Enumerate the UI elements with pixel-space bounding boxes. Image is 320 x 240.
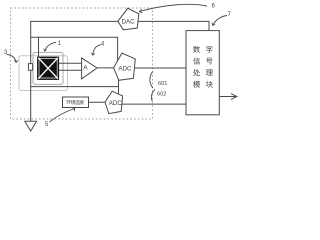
svg-text:3: 3: [4, 50, 8, 56]
svg-text:ADC: ADC: [118, 65, 132, 72]
svg-text:DAC: DAC: [122, 19, 136, 26]
svg-text:602: 602: [157, 92, 166, 98]
svg-text:6: 6: [212, 4, 216, 10]
svg-text:4: 4: [101, 41, 105, 47]
svg-text:1: 1: [58, 41, 62, 47]
svg-text:601: 601: [158, 81, 167, 87]
svg-text:A: A: [83, 64, 88, 71]
svg-text:5: 5: [45, 122, 49, 128]
svg-text:7: 7: [228, 12, 232, 18]
svg-text:ADC: ADC: [109, 100, 123, 107]
